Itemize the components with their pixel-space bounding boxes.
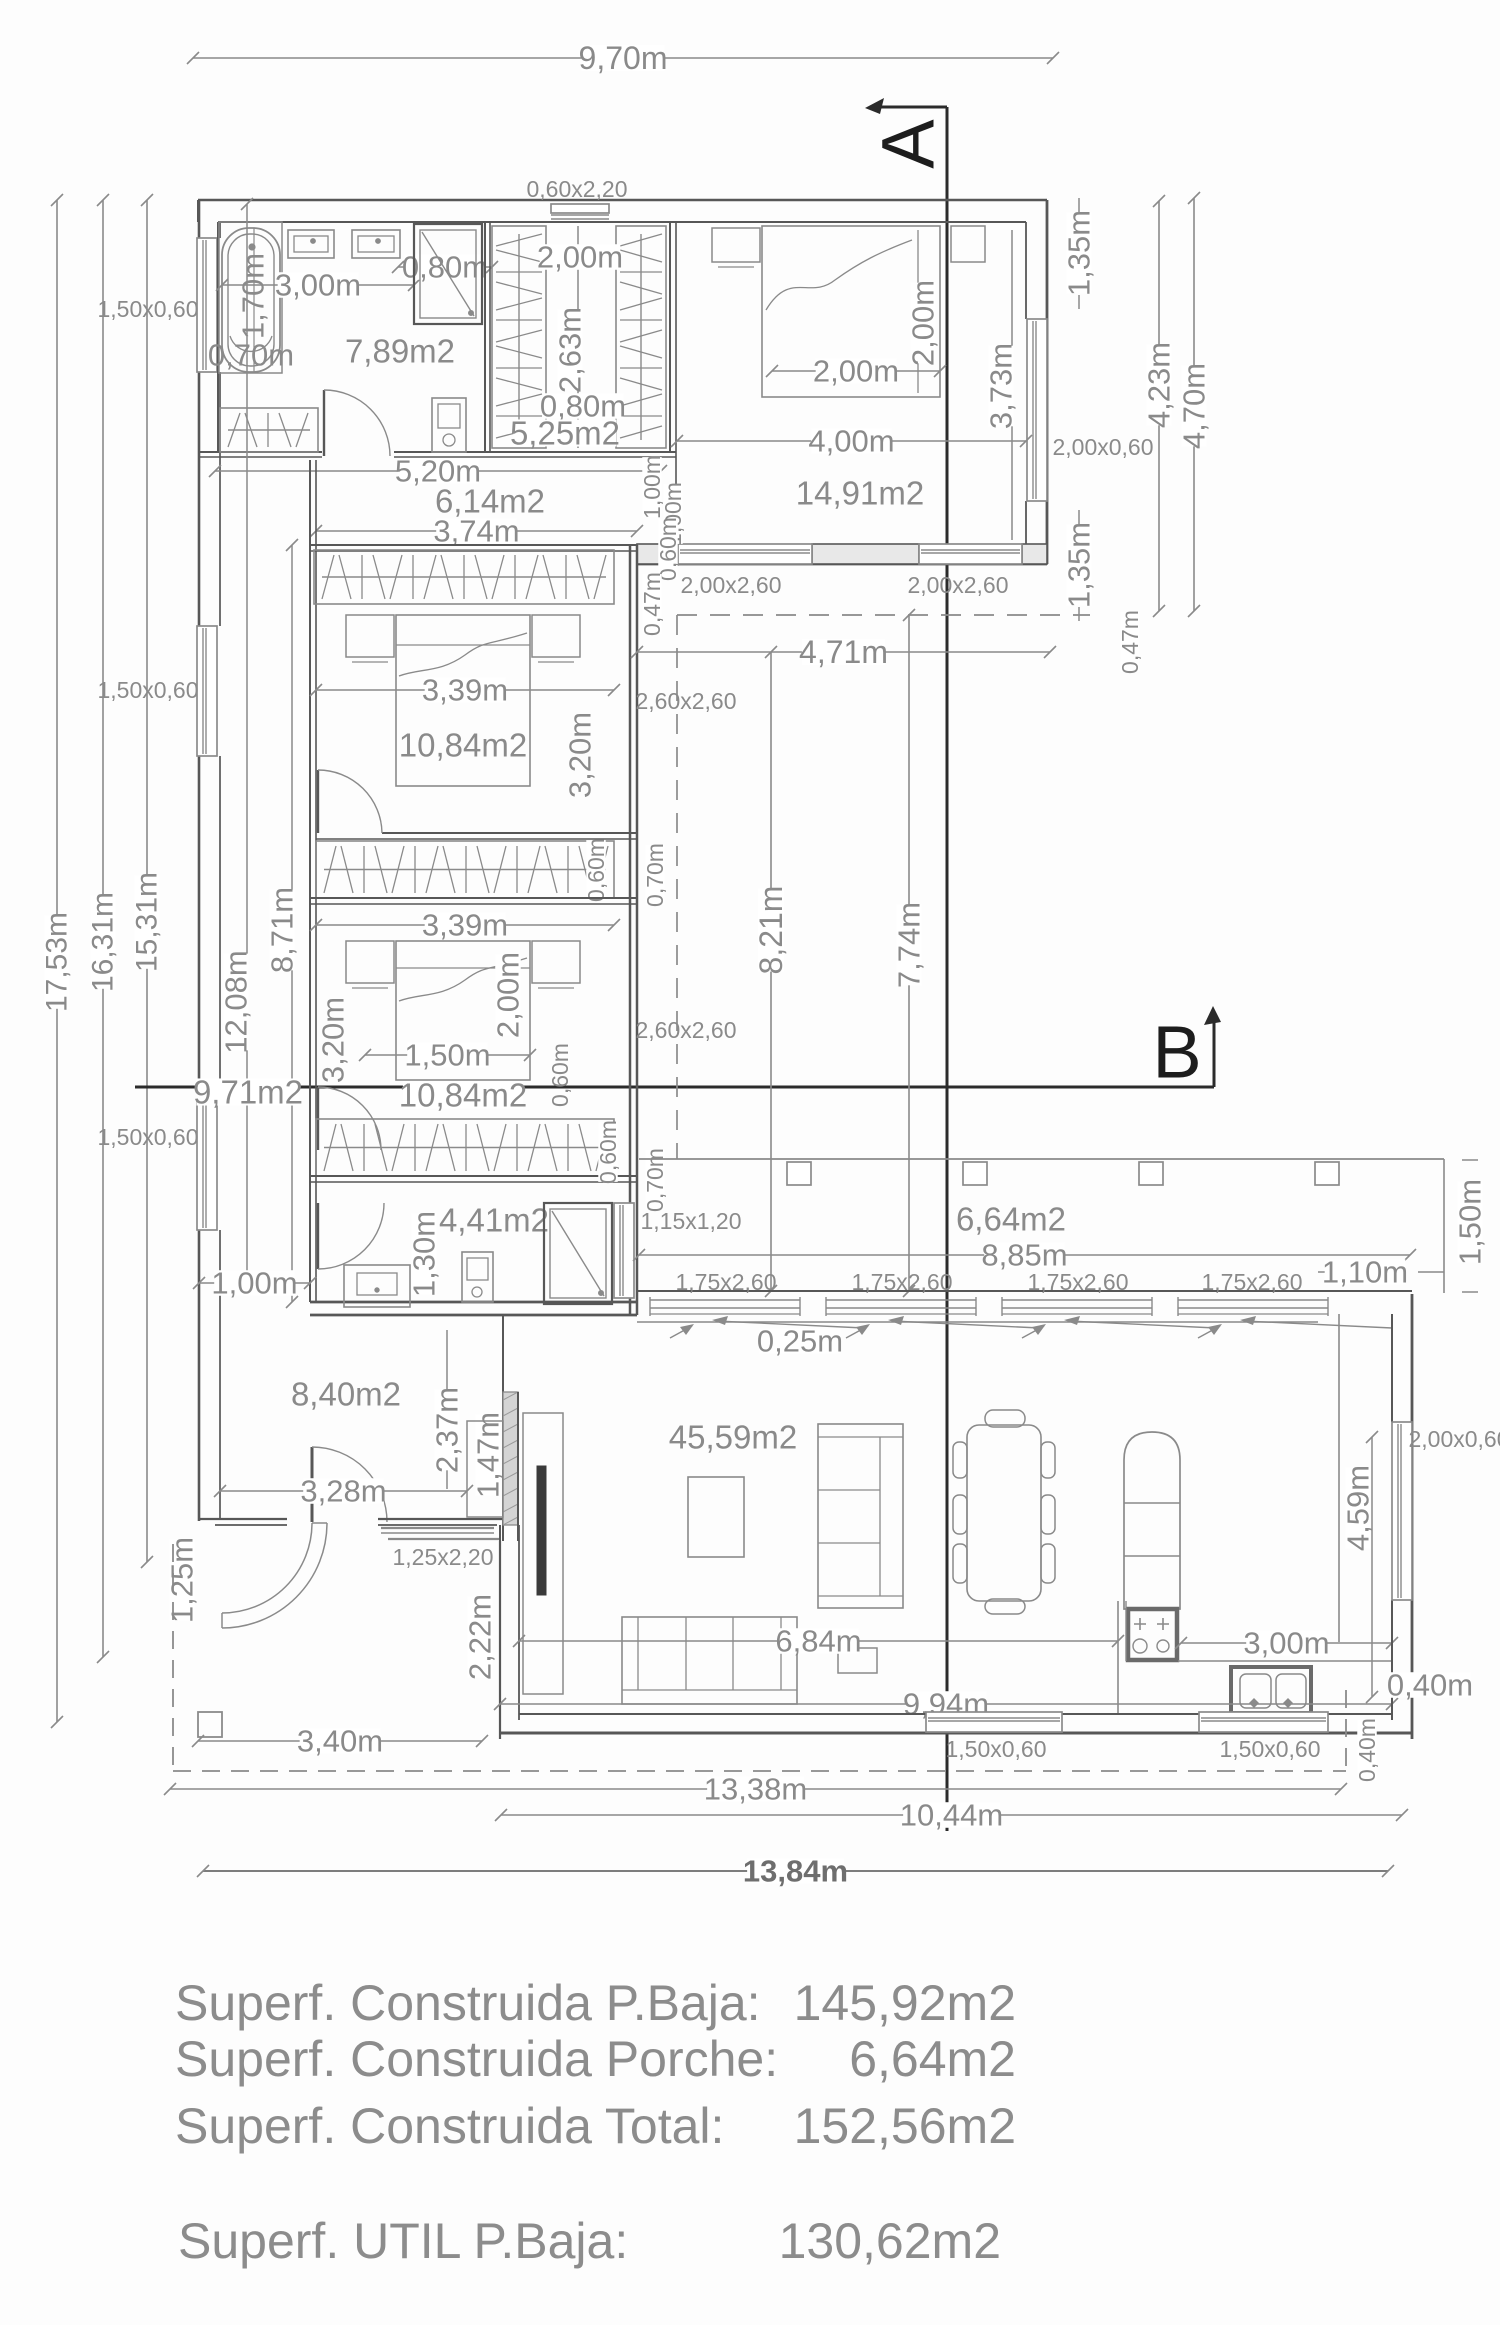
wardrobe hatch right <box>616 226 666 448</box>
svg-text:10,84m2: 10,84m2 <box>399 1077 527 1114</box>
label 5,25m2 <box>514 419 617 446</box>
dimension 3,00m kitchen <box>1181 1642 1392 1644</box>
dimension 7,74m <box>892 609 927 1297</box>
wing east wall <box>630 545 637 1315</box>
svg-text:1,50x0,60: 1,50x0,60 <box>945 1736 1046 1762</box>
bedroom1 nightstand R <box>951 226 985 262</box>
label 10,84m2 bedroom3 <box>403 1081 523 1108</box>
entry door arc <box>222 1523 327 1628</box>
svg-text:2,00x0,60: 2,00x0,60 <box>1408 1426 1500 1452</box>
svg-text:12,08m: 12,08m <box>219 950 254 1053</box>
label 0,47m wing <box>642 574 661 634</box>
svg-text:B: B <box>1152 1011 1201 1094</box>
dimension 2,00m closet <box>537 226 623 448</box>
window 1,50x0,60 left-2 <box>197 626 217 756</box>
svg-text:0,70m: 0,70m <box>642 1148 668 1212</box>
svg-text:2,63m: 2,63m <box>553 307 588 393</box>
overhang dashed horizontal <box>677 614 1090 616</box>
entry west wall stub <box>199 1519 287 1525</box>
window 1,15x1,20 <box>614 1203 634 1298</box>
hall east wall <box>503 1315 518 1541</box>
bathroom1 door <box>324 390 390 456</box>
sink 2 <box>352 230 400 258</box>
svg-text:1,10m: 1,10m <box>1322 1255 1408 1290</box>
svg-text:13,38m: 13,38m <box>704 1772 807 1807</box>
bathroom1 west wall <box>217 222 219 452</box>
dining chair bottom <box>985 1599 1025 1614</box>
dimension 8,71m corridor <box>265 539 300 1308</box>
svg-text:2,00x2,60: 2,00x2,60 <box>680 572 781 598</box>
svg-text:8,85m: 8,85m <box>981 1238 1067 1273</box>
label 0,70m court-1 <box>645 845 664 905</box>
dimension 3,00m bath <box>222 284 414 286</box>
dimension 3,40m <box>198 1740 482 1742</box>
dimension 0,80m shower <box>398 266 492 268</box>
svg-text:1,75x2,60: 1,75x2,60 <box>675 1269 776 1295</box>
dimension 3,39m bedroom2 <box>316 689 614 691</box>
dimension 8,85m <box>639 1254 1410 1256</box>
wardrobe hatch left <box>492 226 546 448</box>
svg-text:3,20m: 3,20m <box>316 997 351 1083</box>
svg-text:Superf. Construida P.Baja:: Superf. Construida P.Baja: <box>175 1975 761 2031</box>
bedroom2 bed <box>396 615 530 786</box>
dining chair right3 <box>1041 1544 1055 1583</box>
label 2,63m closet <box>557 310 583 391</box>
svg-text:3,00m: 3,00m <box>275 268 361 303</box>
window 1,50x0,60 left-3 <box>197 1100 217 1230</box>
dimension 5,20m <box>215 470 661 472</box>
porch roof line <box>639 1158 1444 1160</box>
svg-text:1,70m: 1,70m <box>236 253 271 339</box>
label 0,25m <box>760 1328 841 1354</box>
corridor west wall <box>310 460 316 1302</box>
sliding door 1,25x2,20 <box>381 1528 500 1539</box>
svg-text:152,56m2: 152,56m2 <box>794 2098 1016 2154</box>
svg-text:0,60m: 0,60m <box>595 1120 621 1184</box>
label 1,10m <box>1318 1255 1444 1290</box>
dimension 3,28m <box>220 1490 467 1492</box>
dining chair right1 <box>1041 1442 1055 1478</box>
label 3,73m <box>984 230 1019 540</box>
overhang dashed vertical <box>676 615 678 1159</box>
dimension 8,21m <box>753 646 789 1297</box>
svg-text:2,60x2,60: 2,60x2,60 <box>635 1017 736 1043</box>
dimension 13,84m <box>203 1870 1388 1872</box>
svg-text:1,50x0,60: 1,50x0,60 <box>97 677 198 703</box>
label 0,40m bottom <box>1357 1720 1376 1780</box>
svg-text:5,25m2: 5,25m2 <box>510 415 620 452</box>
closet strip2 hatch <box>316 1119 614 1176</box>
living east wall <box>1392 1294 1412 1739</box>
svg-text:0,25m: 0,25m <box>757 1324 843 1359</box>
svg-text:8,71m: 8,71m <box>265 887 300 973</box>
wc1 <box>432 398 466 452</box>
corridor south wall <box>310 545 637 551</box>
svg-text:10,84m2: 10,84m2 <box>399 727 527 764</box>
window 1,50x0,60 left-1 <box>197 238 217 372</box>
label 2,22m <box>463 1594 498 1680</box>
svg-text:0,60m: 0,60m <box>547 1043 573 1107</box>
svg-text:3,73m: 3,73m <box>984 343 1019 429</box>
site pillar <box>198 1712 222 1737</box>
closet strip hatch <box>316 841 614 898</box>
dimension 6,84m <box>519 1640 1118 1642</box>
sink 1 <box>288 230 334 258</box>
label 1,00m wing-b <box>663 484 682 544</box>
exterior left wall <box>199 200 220 1521</box>
shower1 <box>414 224 482 324</box>
svg-text:1,75x2,60: 1,75x2,60 <box>1027 1269 1128 1295</box>
svg-text:7,89m2: 7,89m2 <box>345 333 455 370</box>
label 1,35m lower <box>1066 525 1092 606</box>
svg-text:Superf. Construida Porche:: Superf. Construida Porche: <box>175 2031 778 2087</box>
dining chair top <box>985 1410 1025 1427</box>
dimension 9,94m <box>500 1703 1392 1705</box>
svg-text:8,21m: 8,21m <box>753 886 789 975</box>
laundry closet hatch <box>220 408 318 452</box>
closet strip2 south wall <box>310 1176 637 1182</box>
hall door leaf <box>312 1447 387 1522</box>
section line A <box>865 98 947 1831</box>
svg-text:3,39m: 3,39m <box>422 673 508 708</box>
tv unit <box>523 1413 563 1694</box>
bedroom1 south wall <box>637 544 1047 564</box>
svg-text:4,71m: 4,71m <box>799 634 888 670</box>
closet east wall <box>670 222 676 487</box>
svg-text:2,60x2,60: 2,60x2,60 <box>635 688 736 714</box>
entry door 0,60x2,20 top <box>551 204 609 219</box>
svg-text:2,00m: 2,00m <box>906 280 941 366</box>
svg-text:0,40m: 0,40m <box>1354 1718 1380 1782</box>
svg-text:1,35m: 1,35m <box>1062 522 1097 608</box>
sliding glass wall <box>637 1291 1412 1316</box>
window 1,50x0,60 south-2 <box>1199 1712 1328 1732</box>
label 1,00m wing-a <box>642 457 661 517</box>
bedroom3 nightstand R <box>532 941 580 988</box>
tv screen <box>537 1466 546 1595</box>
porch pillar 2 <box>963 1162 987 1185</box>
svg-text:130,62m2: 130,62m2 <box>779 2213 1001 2269</box>
bedroom3 nightstand L <box>346 941 394 988</box>
svg-text:14,91m2: 14,91m2 <box>796 475 924 512</box>
window 2,00x0,60 bedroom1 <box>1027 319 1047 501</box>
site dashed west <box>172 1544 174 1771</box>
svg-text:9,70m: 9,70m <box>579 40 668 76</box>
label 0,60m closet strip2 <box>598 1122 617 1182</box>
label 0,80m closet <box>543 393 624 419</box>
dimension 2,00m bed <box>772 370 940 372</box>
svg-text:2,22m: 2,22m <box>463 1594 498 1680</box>
svg-text:8,40m2: 8,40m2 <box>291 1376 401 1413</box>
side table <box>838 1648 877 1673</box>
svg-text:0,70m: 0,70m <box>208 338 294 373</box>
porch pillar 1 <box>787 1162 811 1185</box>
svg-text:0,47m: 0,47m <box>639 572 665 636</box>
cooktop <box>1128 1609 1177 1660</box>
svg-text:1,00m: 1,00m <box>211 1266 297 1301</box>
dining chair left2 <box>953 1495 967 1534</box>
svg-text:15,31m: 15,31m <box>131 872 164 972</box>
svg-text:0,60m: 0,60m <box>583 838 609 902</box>
svg-text:1,50m: 1,50m <box>1453 1179 1488 1265</box>
svg-text:1,47m: 1,47m <box>471 1412 506 1498</box>
svg-text:2,37m: 2,37m <box>430 1387 465 1473</box>
bathtub <box>222 228 280 372</box>
bathroom2 door <box>318 1203 384 1269</box>
tick 1,35m lower <box>1078 510 1080 524</box>
label 0,60m wing <box>658 519 677 579</box>
corridor north wall <box>215 451 218 453</box>
label 2,00m bedroom3 <box>495 955 521 1036</box>
window 2,00x0,6 east <box>1392 1422 1412 1600</box>
tick 1,35m upper <box>1078 198 1080 212</box>
label 9,71m2 corridor <box>197 1078 300 1105</box>
dining chair left1 <box>953 1442 967 1478</box>
closet west wall <box>485 222 490 452</box>
coffee table <box>688 1477 744 1557</box>
svg-text:1,75x2,60: 1,75x2,60 <box>1201 1269 1302 1295</box>
svg-text:17,53m: 17,53m <box>41 912 74 1012</box>
svg-text:A: A <box>867 119 950 169</box>
svg-text:1,50x0,60: 1,50x0,60 <box>97 296 198 322</box>
label 0,47m right <box>1120 612 1139 672</box>
bedroom2 door <box>318 770 382 833</box>
svg-text:3,40m: 3,40m <box>297 1724 383 1759</box>
bathroom1 south wall <box>199 452 485 457</box>
bathroom2 shower <box>544 1203 612 1304</box>
svg-text:1,50m: 1,50m <box>404 1038 490 1073</box>
svg-text:1,50x0,60: 1,50x0,60 <box>97 1124 198 1150</box>
svg-text:6,64m2: 6,64m2 <box>956 1201 1066 1238</box>
svg-text:3,39m: 3,39m <box>422 908 508 943</box>
bathroom2 vanity <box>344 1265 410 1307</box>
bedroom2 closet hatch <box>314 550 614 604</box>
section line B <box>135 1006 1221 1087</box>
bedroom3 door <box>318 1087 381 1150</box>
bedroom1 east wall <box>1026 200 1047 564</box>
svg-text:13,84m: 13,84m <box>743 1854 848 1889</box>
dimension 16,31m left <box>102 200 104 1657</box>
svg-text:1,30m: 1,30m <box>407 1211 442 1297</box>
svg-text:2,00m: 2,00m <box>491 952 526 1038</box>
svg-text:0,70m: 0,70m <box>642 843 668 907</box>
tub niche <box>219 222 282 373</box>
svg-text:1,75x2,60: 1,75x2,60 <box>851 1269 952 1295</box>
sofa vertical <box>818 1424 903 1608</box>
sofa horizontal <box>622 1617 797 1704</box>
bedroom2 nightstand L <box>346 615 394 662</box>
svg-text:6,84m: 6,84m <box>775 1624 861 1659</box>
svg-text:7,74m: 7,74m <box>892 902 927 988</box>
window 1,50x0,60 south-1 <box>926 1712 1062 1732</box>
kitchen counter edge <box>1118 1314 1392 1714</box>
svg-text:1,25m: 1,25m <box>165 1537 200 1623</box>
svg-text:3,20m: 3,20m <box>563 712 598 798</box>
dimension 1,50m bedroom3 <box>365 1054 530 1056</box>
svg-text:0,60x2,20: 0,60x2,20 <box>526 176 627 202</box>
svg-text:2,00m: 2,00m <box>537 240 623 275</box>
window 2,00x2,60 bedroom1-right <box>919 544 1022 564</box>
sliding arrows <box>670 1316 1392 1338</box>
dining table <box>967 1425 1041 1601</box>
dimension 3,74m <box>316 530 637 532</box>
svg-text:9,71m2: 9,71m2 <box>193 1074 303 1111</box>
dimension 4,71m <box>637 651 1050 653</box>
dimension 17,53m left <box>56 200 58 1722</box>
bedroom2 nightstand R <box>532 615 580 662</box>
svg-text:4,59m: 4,59m <box>1341 1465 1376 1551</box>
dimension 2,37m <box>430 1330 465 1489</box>
svg-text:1,25x2,20: 1,25x2,20 <box>392 1544 493 1570</box>
svg-text:0,40m: 0,40m <box>1387 1668 1473 1703</box>
label 0,40m right <box>1387 1668 1473 1703</box>
bedroom1 nightstand L <box>712 228 760 267</box>
svg-text:Superf. Construida Total:: Superf. Construida Total: <box>175 2098 724 2154</box>
svg-text:6,64m2: 6,64m2 <box>849 2031 1016 2087</box>
dimension 4,59m <box>1341 1431 1379 1703</box>
svg-text:4,70m: 4,70m <box>1177 363 1212 449</box>
label 1,30m <box>411 1214 437 1295</box>
label 2,00m bed vert <box>910 283 936 364</box>
label 0,70m court-2 <box>645 1150 664 1210</box>
svg-text:2,00x0,60: 2,00x0,60 <box>1052 434 1153 460</box>
svg-text:10,44m: 10,44m <box>900 1798 1003 1833</box>
svg-text:3,00m: 3,00m <box>1243 1626 1329 1661</box>
svg-text:1,50x0,60: 1,50x0,60 <box>1219 1736 1320 1762</box>
label 0,60m closet strip <box>586 840 605 900</box>
wing south wall <box>310 1302 637 1315</box>
svg-text:2,00m: 2,00m <box>813 354 899 389</box>
dimension 13,38m <box>170 1788 1341 1790</box>
living south wall <box>500 1714 1412 1733</box>
svg-text:4,41m2: 4,41m2 <box>439 1202 549 1239</box>
porch sill line <box>637 1321 1318 1323</box>
dimension 9,70m top <box>193 57 1053 59</box>
dimension 15,31m left <box>146 200 148 1562</box>
exterior top wall <box>198 200 1047 222</box>
dining chair right2 <box>1041 1495 1055 1534</box>
svg-text:1,35m: 1,35m <box>1062 210 1097 296</box>
svg-text:Superf. UTIL P.Baja:: Superf. UTIL P.Baja: <box>178 2213 628 2269</box>
dimension 4,00m <box>677 440 1026 442</box>
svg-text:0,60m: 0,60m <box>655 517 681 581</box>
dimension 10,44m <box>501 1814 1402 1816</box>
site dashed south <box>173 1770 1346 1772</box>
dimension 3,39m bedroom3 <box>316 924 614 926</box>
dimension 1,50m porch right <box>1444 1159 1488 1293</box>
label 1,47m <box>475 1415 501 1496</box>
svg-text:4,00m: 4,00m <box>808 424 894 459</box>
svg-text:45,59m2: 45,59m2 <box>669 1419 797 1456</box>
svg-text:0,47m: 0,47m <box>1117 610 1143 674</box>
svg-text:16,31m: 16,31m <box>87 892 120 992</box>
svg-text:3,28m: 3,28m <box>300 1474 386 1509</box>
bedroom1 bed <box>762 226 940 397</box>
window 2,00x2,60 bedroom1-left <box>678 544 812 564</box>
label 1,25m <box>169 1540 195 1621</box>
dimension 4,23m <box>1158 201 1160 611</box>
dimension 12,08m corridor <box>219 198 254 1291</box>
svg-text:4,23m: 4,23m <box>1142 342 1177 428</box>
dimension 1,00m <box>199 1282 310 1284</box>
dimension 4,70m <box>1193 198 1195 611</box>
bedroom3 bed <box>396 941 530 1080</box>
dining chair left3 <box>953 1544 967 1583</box>
porch pillar 4 <box>1315 1162 1339 1185</box>
site dashed east <box>1345 1690 1347 1771</box>
hall south wall <box>378 1519 503 1525</box>
label 1,35m upper <box>1066 213 1092 294</box>
closet south wall <box>485 452 676 457</box>
porch pillar 3 <box>1139 1162 1163 1185</box>
kitchen sink <box>1231 1667 1311 1713</box>
living west wall <box>500 1525 519 1739</box>
svg-text:145,92m2: 145,92m2 <box>794 1975 1016 2031</box>
closet strip south wall <box>310 898 637 904</box>
svg-text:3,74m: 3,74m <box>433 514 519 549</box>
kitchen island <box>1124 1432 1180 1609</box>
bathroom2 wc <box>462 1252 493 1302</box>
svg-text:2,00x2,60: 2,00x2,60 <box>907 572 1008 598</box>
coat closet <box>467 1421 503 1517</box>
bedroom2 south wall <box>316 833 637 839</box>
